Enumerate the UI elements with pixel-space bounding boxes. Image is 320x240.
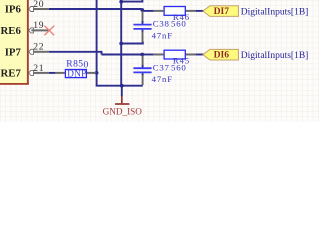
svg-text:560: 560 <box>171 19 187 29</box>
svg-text:DI6: DI6 <box>214 50 230 61</box>
svg-text:IP6: IP6 <box>5 4 22 16</box>
svg-text:DigitalInputs[1B]: DigitalInputs[1B] <box>241 8 309 18</box>
svg-text:DNP: DNP <box>67 68 86 78</box>
svg-text:IP7: IP7 <box>5 46 22 58</box>
svg-text:RE6: RE6 <box>0 25 21 37</box>
svg-text:GND_ISO: GND_ISO <box>103 106 143 116</box>
svg-text:47nF: 47nF <box>152 30 173 40</box>
svg-text:DigitalInputs[1B]: DigitalInputs[1B] <box>241 51 309 61</box>
svg-text:RE7: RE7 <box>0 67 21 79</box>
svg-text:560: 560 <box>171 62 187 72</box>
svg-text:C38: C38 <box>153 19 170 29</box>
svg-text:47nF: 47nF <box>152 74 173 84</box>
svg-text:DI7: DI7 <box>214 6 230 17</box>
svg-text:C37: C37 <box>153 62 170 72</box>
